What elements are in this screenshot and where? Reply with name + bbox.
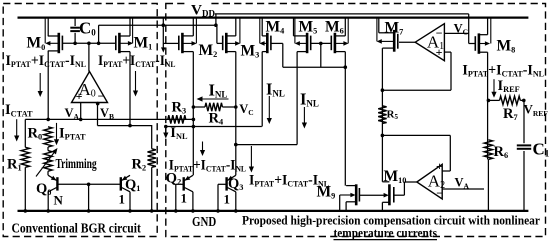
svg-text:1: 1 [181, 191, 188, 206]
svg-text:N: N [54, 193, 64, 208]
svg-text:Conventional BGR circuit: Conventional BGR circuit [12, 222, 142, 237]
svg-text:GND: GND [192, 214, 216, 229]
svg-text:−: − [98, 89, 105, 103]
svg-text:temperature currents: temperature currents [334, 225, 438, 240]
svg-text:1: 1 [119, 192, 126, 207]
svg-text:1: 1 [224, 192, 231, 207]
svg-text:Trimming: Trimming [56, 156, 97, 171]
